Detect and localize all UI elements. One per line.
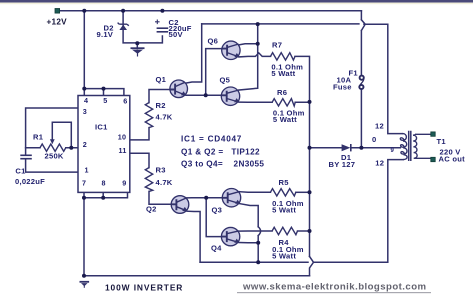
svg-text:Q3 to Q4= 2N3055: Q3 to Q4= 2N3055 [181, 160, 264, 169]
transistor Q4 [221, 227, 239, 245]
svg-text:12: 12 [375, 159, 384, 168]
wire Q1 emitter node [186, 49, 222, 96]
wire R4 right [298, 230, 310, 232]
wire Q1 collector to top horizontal [184, 24, 202, 84]
transistor Q2 [171, 196, 189, 214]
top border frame [0, 0, 473, 3]
svg-text:R7: R7 [272, 41, 282, 50]
wire pins 7/8/9 bottom bus [84, 192, 128, 197]
wire Q4 collector to R4 [239, 230, 272, 232]
svg-text:Q2: Q2 [146, 205, 157, 214]
wire Q3 emitter drop [240, 204, 261, 263]
core lines [409, 131, 411, 161]
diode D1 BY127 [342, 144, 351, 151]
wire R7 right to common vertical [295, 56, 310, 256]
zener diode D2 9.1V [118, 23, 129, 30]
terminal square AC top [431, 132, 435, 136]
wire emitter rail to transformer bottom [200, 160, 403, 263]
resistor R2 4.7K vertical zigzag [145, 103, 152, 128]
wire R6 right [295, 101, 309, 103]
wire Q6 emitter to R7 [239, 53, 271, 57]
svg-text:R6: R6 [277, 88, 287, 97]
svg-text:5 Watt: 5 Watt [272, 206, 296, 215]
svg-text:50V: 50V [169, 30, 184, 39]
svg-text:+12V: +12V [47, 18, 68, 27]
resistor R4 zigzag [272, 227, 297, 234]
transistor Q5 [221, 87, 239, 105]
wire ground rail bottom [84, 275, 310, 277]
wire +12V rail [60, 10, 362, 12]
transformer T1 [400, 131, 431, 161]
svg-text:2: 2 [83, 140, 87, 149]
resistor R7 zigzag [271, 53, 296, 60]
svg-text:Q5: Q5 [220, 76, 231, 85]
svg-text:9.1V: 9.1V [97, 30, 114, 39]
wire hop kink bottom of common vertical [310, 256, 314, 275]
svg-text:Q1 & Q2 = TIP122: Q1 & Q2 = TIP122 [181, 148, 260, 157]
svg-text:6: 6 [123, 97, 127, 106]
svg-text:9: 9 [122, 178, 126, 187]
svg-text:4.7K: 4.7K [156, 178, 173, 187]
svg-text:0: 0 [372, 135, 376, 144]
svg-text:IC1: IC1 [95, 123, 108, 132]
svg-text:R3: R3 [156, 166, 166, 175]
wire Q2 collector node [187, 198, 223, 237]
svg-text:12: 12 [375, 122, 384, 131]
transistor Q1 [170, 80, 188, 98]
svg-text:5 Watt: 5 Watt [271, 69, 295, 78]
wire Q6 collector [236, 24, 258, 45]
plus sign C2 [155, 20, 160, 25]
svg-text:www.skema-elektronik.blogspot.: www.skema-elektronik.blogspot.com [242, 282, 427, 293]
resistor R3 4.7K vertical zigzag [145, 168, 152, 192]
transistor Q3 [222, 189, 240, 207]
wire C1 bottom to pin1 [26, 159, 78, 172]
resistor R6 zigzag [272, 99, 295, 106]
svg-text:C1: C1 [15, 167, 26, 176]
resistor R5 zigzag [270, 189, 295, 196]
svg-text:11: 11 [119, 146, 127, 155]
resistor R1 250K horizontal zigzag [40, 144, 66, 151]
svg-text:Q4: Q4 [211, 244, 222, 253]
svg-text:R2: R2 [156, 101, 166, 110]
primary coil with curls [400, 134, 407, 160]
wire Q5 emitter to R6 [239, 101, 272, 103]
svg-text:5 Watt: 5 Watt [273, 115, 297, 124]
wire D1 branch [310, 147, 401, 149]
svg-text:8: 8 [102, 178, 106, 187]
svg-text:4.7K: 4.7K [156, 113, 173, 122]
svg-text:1: 1 [85, 166, 89, 175]
wire D2 branch [123, 11, 162, 43]
capacitor C1 plates [20, 155, 32, 158]
secondary leads [413, 134, 431, 158]
wire R5 right [296, 191, 310, 193]
wire pin3 to R1/C1 [26, 108, 78, 155]
svg-text:BY 127: BY 127 [329, 160, 356, 169]
svg-text:Fuse: Fuse [333, 83, 352, 92]
terminal square AC bottom [431, 157, 435, 161]
svg-text:AC out: AC out [439, 155, 466, 164]
svg-text:9: 9 [391, 148, 395, 154]
svg-text:250K: 250K [45, 152, 64, 161]
IC1 CD4047 box [78, 96, 130, 193]
wire ground stub top [136, 43, 138, 49]
pin numbers [82, 96, 127, 187]
wire collector line to transformer top [202, 24, 403, 134]
svg-text:5: 5 [103, 96, 107, 105]
wire Q5 collector [239, 44, 258, 90]
wire Q2 emitter drop [187, 211, 200, 262]
svg-text:Q3: Q3 [212, 206, 223, 215]
transistor Q6 [222, 41, 240, 59]
fuse F1 [359, 76, 364, 90]
svg-text:R1: R1 [33, 133, 44, 142]
wire Q4 emitter [239, 242, 258, 244]
svg-text:4: 4 [84, 96, 88, 105]
svg-text:3: 3 [83, 107, 87, 116]
watermark underline [237, 292, 431, 293]
svg-text:10: 10 [118, 133, 127, 142]
wire rail to pins 4/5/6 [84, 11, 124, 96]
svg-text:T1: T1 [437, 137, 447, 146]
svg-text:Q1: Q1 [156, 75, 167, 84]
wire left ground drop [83, 198, 85, 276]
svg-text:7: 7 [82, 178, 86, 187]
wire fuse drop from rail [361, 11, 365, 148]
wire Q3 collector to R5 [240, 191, 271, 194]
pot wiper arrow R1 [50, 139, 55, 144]
svg-text:100W INVERTER: 100W INVERTER [105, 283, 183, 293]
ground symbol top (D2/C2) [131, 48, 145, 56]
wire R1 leads and pot loop [26, 122, 78, 147]
capacitor C2 220uF plates [157, 28, 169, 32]
svg-text:0,022uF: 0,022uF [15, 177, 45, 186]
svg-text:IC1 = CD4047: IC1 = CD4047 [181, 135, 242, 144]
wire pin10 to R2 to Q1 base [129, 90, 170, 140]
svg-text:R5: R5 [279, 178, 290, 187]
secondary coil [413, 135, 417, 158]
svg-text:Q6: Q6 [208, 37, 219, 46]
wire pin11 to R3 to Q2 base [129, 153, 171, 204]
ground symbol bottom left [80, 282, 90, 288]
svg-text:5 Watt: 5 Watt [272, 252, 296, 261]
terminal square +12V [55, 9, 60, 14]
